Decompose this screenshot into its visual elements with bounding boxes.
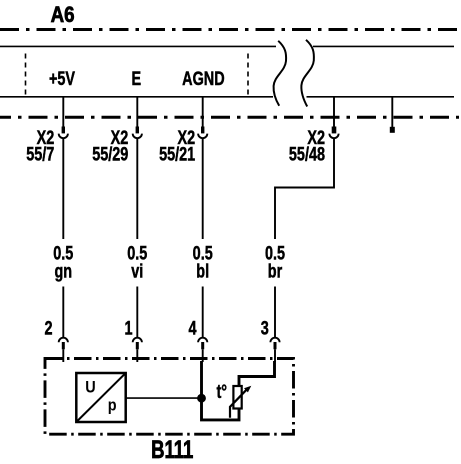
B111 pin 3 (male, from component): [274, 342, 277, 349]
wire: lower bus down to connector X2 55/48: [333, 97, 335, 127]
B111 pin 2 (male, from component): [62, 342, 65, 349]
unused terminal pin (filled square): [390, 127, 395, 133]
wire: E rail down to connector X2 55/29: [136, 97, 138, 127]
svg-text:bl: bl: [196, 259, 209, 282]
internal supply rail (upper bus), left segment: [0, 45, 276, 47]
thermistor body: [233, 386, 241, 409]
svg-text:vi: vi: [131, 259, 143, 282]
svg-text:4: 4: [188, 316, 196, 339]
thermistor variability arrow shaft: [230, 389, 248, 418]
pressure sensor element U/p box: [76, 373, 125, 422]
wire br, upper segment with jog: [275, 138, 334, 239]
internal pin rail (lower bus), right segment: [307, 96, 455, 98]
svg-text:gn: gn: [54, 259, 72, 282]
svg-text:55/48: 55/48: [289, 142, 325, 165]
internal separator (dashed), right: [247, 54, 249, 97]
unused terminal stub on lower bus: [391, 97, 393, 128]
svg-text:E: E: [131, 67, 141, 90]
svg-text:br: br: [268, 259, 283, 282]
B111 pin 2 socket (female, facing down): [59, 338, 68, 343]
svg-text:55/29: 55/29: [92, 142, 128, 165]
internal pin rail (lower bus), left segment: [0, 96, 273, 98]
cable break mark, right squiggle: [301, 40, 314, 107]
connector X2 55/21 socket (female): [198, 134, 207, 139]
connector X2 55/21 pin (male): [201, 127, 204, 134]
connector X2 55/7 socket (female): [59, 134, 68, 139]
pressure sensor diagonal divider: [76, 373, 125, 422]
svg-text:55/21: 55/21: [159, 142, 195, 165]
svg-text:p: p: [108, 396, 117, 414]
B111 pin 1 (male, from component): [136, 342, 139, 349]
junction dot: [197, 394, 206, 403]
B111 pin 3 socket (female, facing down): [270, 338, 279, 343]
svg-text:55/7: 55/7: [26, 142, 54, 165]
wire bl, upper segment: [202, 138, 204, 239]
wire: AGND rail down to connector X2 55/21: [202, 97, 204, 127]
svg-text:A6: A6: [51, 3, 75, 28]
B111 pin 4 (male, from component): [201, 342, 204, 349]
connector X2 55/48 pin (male): [332, 127, 337, 134]
wire: +5V rail down to connector X2 55/7: [62, 97, 64, 127]
B111 pin 4 socket (female, facing down): [198, 338, 207, 343]
svg-text:B111: B111: [151, 435, 193, 464]
wire: pin 4 down through junction to thermistor bottom: [202, 361, 240, 420]
internal supply rail (upper bus), right segment: [313, 45, 454, 47]
component B111 boundary box (dash-dot): [45, 359, 294, 435]
connector X2 55/29 socket (female): [133, 134, 142, 139]
wire vi, upper segment: [136, 138, 138, 239]
wire: pin 3 down and across to thermistor top: [239, 361, 275, 387]
cable break mark, left squiggle: [274, 41, 287, 106]
wire vi, lower segment: [136, 287, 138, 338]
B111 pin 4 lead into box: [202, 349, 204, 362]
svg-text:t°: t°: [217, 380, 228, 403]
svg-text:U: U: [85, 378, 95, 396]
wire gn, upper segment: [62, 138, 64, 239]
A6 boundary top border (dash-dot): [0, 28, 458, 31]
B111 pin 1 lead into box: [136, 349, 138, 362]
connector X2 55/29 pin (male): [136, 127, 139, 134]
wire: sensor output to junction: [126, 397, 200, 399]
B111 pin 3 lead into box: [274, 349, 276, 362]
thermistor arrowhead: [244, 386, 251, 393]
connector X2 55/48 socket (female): [329, 134, 338, 139]
svg-text:2: 2: [44, 316, 52, 339]
wire br, lower segment: [274, 287, 276, 338]
svg-text:1: 1: [124, 316, 132, 339]
svg-text:3: 3: [261, 316, 269, 339]
svg-text:+5V: +5V: [49, 67, 76, 90]
internal separator (dashed), left: [25, 54, 27, 97]
wire gn, lower segment: [62, 287, 64, 338]
wire bl, lower segment: [202, 287, 204, 338]
B111 pin 2 lead into box: [62, 349, 64, 362]
B111 pin 1 socket (female, facing down): [133, 338, 142, 343]
svg-text:AGND: AGND: [182, 67, 224, 90]
connector X2 55/7 pin (male): [62, 127, 65, 134]
A6 boundary bottom border (dash-dot): [0, 116, 459, 119]
